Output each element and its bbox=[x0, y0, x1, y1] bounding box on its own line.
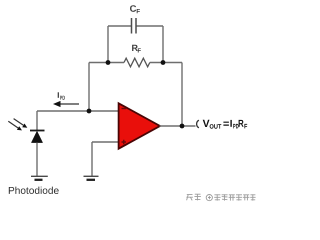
ground (non-inverting input) bbox=[84, 176, 99, 180]
output terminal bbox=[197, 120, 199, 128]
wire non-inverting to ground bbox=[91, 142, 93, 176]
capacitor CF bbox=[132, 18, 137, 34]
wire photodiode cathode (top) bbox=[36, 111, 38, 131]
watermark bbox=[186, 194, 255, 201]
op-amp U1 bbox=[119, 103, 160, 148]
ground (photodiode) bbox=[31, 176, 48, 180]
wire feedback right vertical to output bbox=[181, 63, 183, 127]
label Photodiode bbox=[9, 187, 59, 194]
current arrow IPD bbox=[53, 101, 79, 107]
light arrow 1 bbox=[14, 119, 28, 128]
wire top feedback (capacitor branch) bbox=[108, 26, 163, 63]
junction node inverting input bbox=[87, 109, 92, 114]
wire RF row bbox=[89, 62, 182, 64]
label VOUT = IPD RF bbox=[203, 120, 248, 129]
junction node output/feedback bbox=[180, 124, 185, 129]
wire photodiode anode (bottom) bbox=[36, 143, 38, 176]
resistor RF bbox=[124, 58, 150, 67]
junction node at RF right / CF right bbox=[161, 60, 166, 65]
wire output bbox=[160, 125, 196, 127]
label IPD bbox=[58, 92, 65, 100]
label RF bbox=[132, 45, 141, 53]
wire inverting input bbox=[37, 110, 118, 112]
light arrow 2 bbox=[8, 121, 22, 130]
photodiode D1 bbox=[30, 131, 45, 143]
label CF bbox=[130, 5, 140, 13]
wire non-inverting input bbox=[92, 141, 118, 143]
wire feedback left vertical bbox=[88, 63, 90, 112]
junction node at RF left / CF left bbox=[106, 60, 111, 65]
